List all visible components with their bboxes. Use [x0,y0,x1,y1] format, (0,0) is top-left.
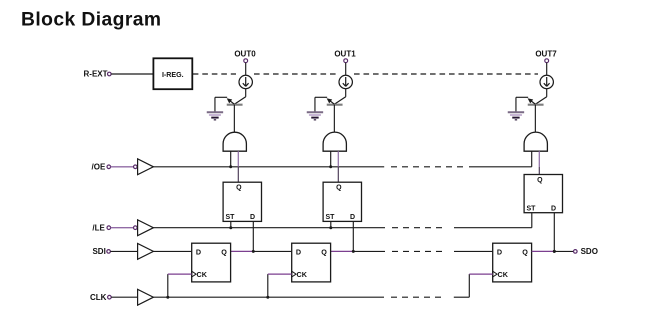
wire OUT1 pin to current source [345,63,347,76]
svg-text:CLK: CLK [90,293,107,302]
buffer CLK [138,289,154,305]
output pin OUT0 [234,49,256,62]
svg-text:D: D [497,247,502,256]
wire /OE stub [111,165,138,169]
wire SDI rail FF1 Q to FF2 D [231,250,292,252]
wire G7 left input to /OE rail [531,151,533,167]
svg-text:OUT1: OUT1 [334,49,356,58]
wire current source to transistor Q7 collector [546,89,548,97]
svg-text:D: D [196,247,201,256]
wire G7 right input to latch Q [538,151,540,174]
svg-text:Q: Q [236,185,242,192]
wire CLK riser to FF7 CK [469,274,492,297]
junction /OE rail col0 [229,165,232,168]
wire G0 right input to latch Q [237,151,239,182]
svg-text:D: D [296,247,301,256]
wire OUT7 pin to current source [546,63,548,76]
latch L1 [323,182,361,221]
AND gate G1 [323,132,346,151]
svg-text:Q: Q [522,247,528,256]
wire latch L1 ST to /LE rail [330,221,332,227]
wire CLK riser to FF0 CK [168,274,192,297]
wire Q7 emitter to ground [516,97,528,111]
wire CLK rail dashed middle [391,296,441,298]
svg-text:I-REG.: I-REG. [162,71,184,79]
output pin OUT1 [334,49,356,62]
wire transistor base to AND gate G7 [534,105,536,133]
svg-text:Block Diagram: Block Diagram [21,10,161,31]
wire transistor base to AND gate G1 [333,105,335,133]
latch L0 [223,182,261,221]
current source CS1 [339,75,352,88]
wire OUT0 pin to current source [245,63,247,76]
svg-text:ST: ST [226,214,236,221]
wire /OE rail dashed middle [391,166,464,168]
svg-text:SDI: SDI [92,247,105,256]
wire latch L7 ST to /LE rail [531,213,533,228]
wire current source to transistor Q1 collector [345,89,347,97]
input pin /LE [92,223,110,232]
wire SDI rail dashed middle [392,250,442,252]
svg-text:/OE: /OE [92,162,106,171]
svg-text:CK: CK [197,270,208,279]
wire Q0 emitter to ground [215,97,227,111]
junction /LE rail col0 [229,226,232,229]
svg-text:D: D [350,214,355,221]
svg-text:CK: CK [297,270,308,279]
ground GND0 [207,112,223,120]
latch L7 [524,175,562,213]
junction shift rail col7 [553,250,556,253]
junction shift rail col0 [252,250,255,253]
transistor Q0 [227,97,246,105]
wire FF7 Q to SDO [532,250,574,252]
wire /LE stub [111,226,138,230]
transistor Q7 [528,97,547,105]
svg-text:OUT0: OUT0 [234,49,256,58]
wire CLK stub [111,296,137,298]
wire transistor base to AND gate G0 [233,105,235,133]
input pin /OE [92,162,111,171]
wire SDI rail solid right to FF3 [454,250,493,252]
wire Q1 emitter to ground [315,97,327,111]
input pin CLK [90,293,111,302]
junction CLK rail col1 [266,296,269,299]
wire G1 right input to latch Q [337,151,339,182]
wire /OE rail solid right [469,166,532,168]
wire R-EXT to I-REG [111,73,153,75]
wire /LE rail dashed middle [392,227,442,229]
wire latch L1 D input down to shift rail [352,221,354,251]
wire CLK rail solid right [454,296,470,298]
dashed current-set bus from I-REG to output current sources [193,73,236,75]
input pin R-EXT [84,69,112,78]
svg-text:OUT7: OUT7 [535,49,557,58]
svg-text:Q: Q [537,177,543,184]
svg-text:/LE: /LE [92,223,105,232]
wire SDI rail buffer to FF1 [153,250,191,252]
svg-text:Q: Q [221,247,227,256]
buffer /OE [138,159,154,175]
flip-flop FF0 [192,243,231,282]
svg-text:R-EXT: R-EXT [84,69,108,78]
input pin SDI [92,247,110,256]
AND gate G7 [524,132,547,151]
wire G1 left input to /OE rail [330,151,332,167]
svg-text:CK: CK [498,270,509,279]
output pin OUT7 [535,49,557,62]
flip-flop FF7 [493,243,532,282]
wire CLK riser to FF1 CK [268,274,292,297]
svg-text:ST: ST [326,214,336,221]
junction shift rail col1 [352,250,355,253]
AND gate G0 [223,132,246,151]
wire latch L0 ST to /LE rail [230,221,232,227]
svg-text:Q: Q [321,247,327,256]
junction FF7 Q / latch D [553,250,556,253]
wire /LE rail solid left [153,227,385,229]
current source CS0 [239,75,252,88]
I-REG block U1 [153,58,192,89]
output pin SDO [574,247,598,256]
wire CLK rail solid left [153,296,384,298]
junction /LE rail col1 [329,226,332,229]
junction /OE rail col1 [329,165,332,168]
wire latch L0 D input down to shift rail [252,221,254,251]
wire /LE rail solid right [454,227,532,229]
wire SDI rail FF2 Q onward solid [331,250,385,252]
wire latch L7 D input down to shift rail [553,213,555,252]
wire G0 left input to /OE rail [230,151,232,167]
flip-flop FF1 [292,243,331,282]
buffer /LE [138,220,154,236]
wire SDI stub [110,250,137,252]
transistor Q1 [327,97,346,105]
svg-text:Q: Q [336,185,342,192]
ground GND7 [508,112,524,120]
ground GND1 [307,112,323,120]
svg-text:D: D [250,214,255,221]
wire current source to transistor Q0 collector [245,89,247,97]
svg-text:D: D [551,206,556,213]
svg-text:ST: ST [527,206,537,213]
buffer SDI [138,244,154,260]
junction CLK rail col0 [166,296,169,299]
wire /OE rail solid left [153,166,384,168]
svg-text:SDO: SDO [581,247,598,256]
current source CS7 [540,75,553,88]
